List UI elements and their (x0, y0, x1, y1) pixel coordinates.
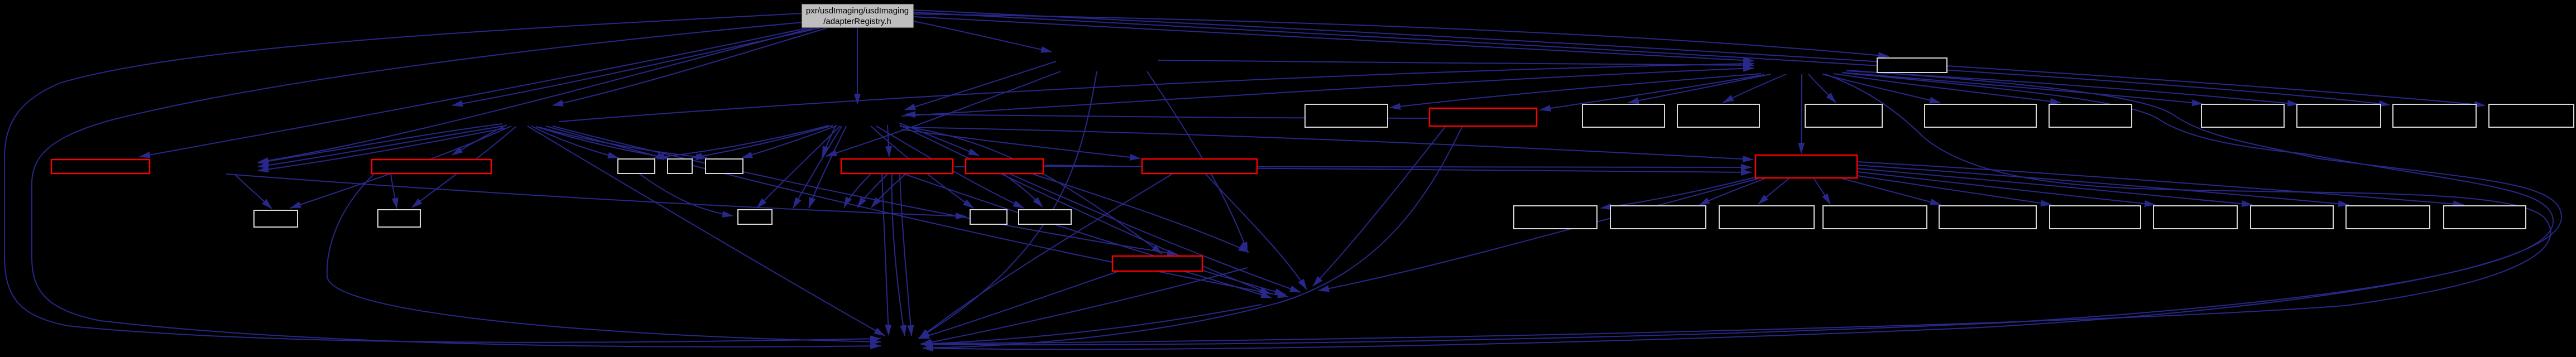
node R4c (1719, 206, 1814, 229)
node RB (372, 160, 491, 173)
edge hub N7 to sink (919, 71, 1097, 338)
svg-text:/adapterRegistry.h: /adapterRegistry.h (823, 17, 891, 26)
edge node RF to hub H3 (1313, 126, 1446, 286)
edge hub H0 to node L1 (290, 126, 511, 208)
node RH (1755, 155, 1857, 178)
edge hub N6 to node L4 (226, 174, 966, 216)
node R4a (1514, 206, 1597, 229)
edge node RD to node RH (1045, 165, 1752, 172)
edge hub H0 to hub N6 b (258, 126, 503, 167)
node RA (51, 160, 150, 173)
node RG (1112, 256, 1202, 271)
edge hub H1 to hub N8 b (809, 126, 846, 208)
edge node RD to hub N5 (1033, 174, 1249, 252)
edge hub H1 to hub H3 (900, 125, 1270, 294)
node R4b (1610, 206, 1706, 229)
edge node RD to hub H3 (1010, 174, 1301, 292)
edge node RH to node R4b (1699, 178, 1765, 205)
edge root to hub H1 (857, 28, 858, 104)
edge hub H1 to hub N8 a (793, 126, 842, 208)
edge node RC to hub N8 e (871, 174, 905, 208)
edge hub H1 to node L4 (871, 126, 973, 208)
edge node RH to hub H3 (1318, 178, 1758, 291)
edge hub H2 to sink via right loop b (923, 70, 2561, 349)
node B10 (2393, 104, 2476, 127)
edge root to hub H2 (914, 17, 1754, 61)
edge node RC to sink b (900, 174, 912, 336)
node L2 (378, 210, 420, 227)
edge hub H1 to node RC (888, 125, 889, 157)
edge hub H1 to node W2 (692, 126, 833, 158)
node R4h (2251, 206, 2333, 229)
edge hub H1 to node RD (899, 123, 979, 156)
edge hub H1 to node W3 (742, 126, 837, 158)
edge root to node RA (140, 28, 808, 157)
node RD (966, 159, 1043, 173)
node RF (1429, 108, 1537, 126)
edge hub H2 to sink via right loop c (921, 74, 2551, 344)
edge node RG to hub H3 (1183, 271, 1272, 298)
edge node RH to node R4h (1857, 168, 2252, 205)
edge root to sink via left border (4, 13, 881, 342)
node W1 (618, 159, 655, 173)
edge hub H2 to node RF (1540, 75, 1764, 110)
edge node RE to sink (919, 174, 1172, 339)
node A (1877, 58, 1947, 73)
edge hub H2 to node RH (1801, 74, 1802, 153)
edge node W1 to node L3 (639, 173, 733, 216)
edge hub H2 to node B9 (1846, 71, 2298, 104)
edge hub H2 to node B4 (1723, 74, 1786, 103)
edge node RC to sink (882, 174, 889, 335)
edge node RH to node R4e (1842, 178, 1941, 205)
edge node RH to node R4g (1857, 172, 2155, 205)
edge node RH to node R4i (1857, 165, 2349, 205)
edge hub H0 to node W1 (531, 126, 618, 158)
edge hub H0 to hub H2 (559, 64, 1754, 122)
edge hub H1 to node W1 (654, 126, 829, 158)
edge root to hub H0 left (452, 28, 821, 105)
edge node RC to hub H3 (904, 174, 1285, 295)
node R4g (2153, 206, 2237, 229)
edge node RC to hub N8 c (844, 174, 871, 208)
svg-text:pxr/usdImaging/usdImaging: pxr/usdImaging/usdImaging (806, 6, 909, 16)
edge hub H1 to node L3 (757, 126, 840, 208)
edge hub H3 to sink (921, 305, 1261, 344)
edge node RH to node R4c (1758, 178, 1789, 204)
node B9 (2297, 104, 2381, 127)
edge hub H1 to node RH (903, 127, 1753, 160)
node L1 (254, 210, 298, 227)
node R4f (2050, 206, 2141, 229)
node L4 (970, 210, 1007, 224)
node B1 (1305, 104, 1388, 127)
edge hub H0 to hub N6 c (258, 128, 505, 171)
edge hub N6 to node L1 (234, 174, 272, 209)
edge hub H0 to node RB (452, 125, 507, 155)
node W3 (706, 159, 743, 173)
edge node RH to node R4j (1857, 162, 2464, 205)
edge hub H0 to node W3 (539, 127, 707, 158)
node L3 (738, 210, 772, 224)
edge node RF to hub H1 (905, 114, 1429, 118)
edge node RH to node R4f (1857, 176, 2051, 205)
node B7 (2049, 104, 2132, 127)
edge root to sink via left lane 2 (32, 22, 881, 347)
node B5 (1805, 104, 1882, 127)
node B11 (2489, 104, 2574, 127)
node B8 (2201, 104, 2284, 127)
edge root to hub N6 (258, 28, 814, 162)
edge root to node A (914, 14, 1889, 56)
edge node RH to node R4a (1601, 177, 1757, 208)
edge node RF to sink (923, 126, 1462, 348)
edge hub H1 to node L5 (876, 126, 1024, 208)
edge hub H1 to node RE (901, 129, 1140, 158)
node B3 (1582, 104, 1664, 127)
edge hub N7 to hub N5 (1147, 71, 1248, 253)
edge node RC to sink a (892, 174, 905, 336)
edge hub H2 to node B7 (1834, 74, 2061, 103)
edge node RC to hub N8 d (857, 174, 888, 208)
edge hub H0 to sink (527, 126, 885, 336)
edge hub H0 to hub N6 a (258, 124, 502, 163)
edge root to hub H0 right (553, 28, 827, 105)
edge hub N7 to hub N9 (826, 71, 1061, 156)
edge root to node B10 (914, 12, 2390, 105)
edge hub H0 to node L2 (412, 127, 516, 208)
edge node RH to node R4d (1814, 178, 1830, 204)
edge root to node B11 (914, 10, 2485, 105)
root node pxr/usdImaging/usdImaging/adapterRegistry.h (802, 4, 914, 28)
node W2 (668, 159, 692, 173)
edge hub N7 to hub H2 (1158, 60, 1754, 65)
node RC (841, 159, 953, 173)
edge node RD to node L5 (1004, 174, 1043, 207)
node R4j (2444, 206, 2526, 229)
edge hub H2 to node B8 (1842, 73, 2203, 104)
edge node RG to sink (919, 271, 1119, 339)
edge hub H0 to node RG (553, 126, 1178, 254)
node L5 (1019, 210, 1071, 224)
edge hub H1 to node RG (900, 126, 1162, 254)
node R4e (1939, 206, 2036, 229)
node B4 (1677, 104, 1759, 127)
edge hub H1 to hub H2 (901, 68, 1754, 116)
edge hub H2 to node B6 (1822, 74, 1940, 103)
edge hub H2 to node B1 (1390, 74, 1761, 108)
edge hub H0 to hub H3 (546, 126, 1288, 297)
edge hub H2 to node B5 (1809, 74, 1836, 103)
node RE (1142, 159, 1257, 173)
edge hub H0 to node W2 (536, 127, 668, 158)
edge node RB to sink (327, 174, 881, 342)
edge hub H2 to node B3 (1628, 74, 1771, 103)
edge node RB to node L2 (391, 174, 397, 209)
edge root to hub N7 (914, 21, 1052, 52)
node B6 (1925, 104, 2036, 127)
edge hub N7 to hub H1 (905, 61, 1056, 110)
node R4d (1823, 206, 1927, 229)
node R4i (2346, 206, 2430, 229)
edge hub H1 to hub N9 (822, 126, 836, 157)
edge node RE to hub H3 (1206, 174, 1307, 290)
edge hub N5 to sink (921, 268, 1248, 344)
edge node RC to node RH (954, 166, 1752, 167)
edge hub H2 to sink via right loop a (921, 73, 2553, 345)
